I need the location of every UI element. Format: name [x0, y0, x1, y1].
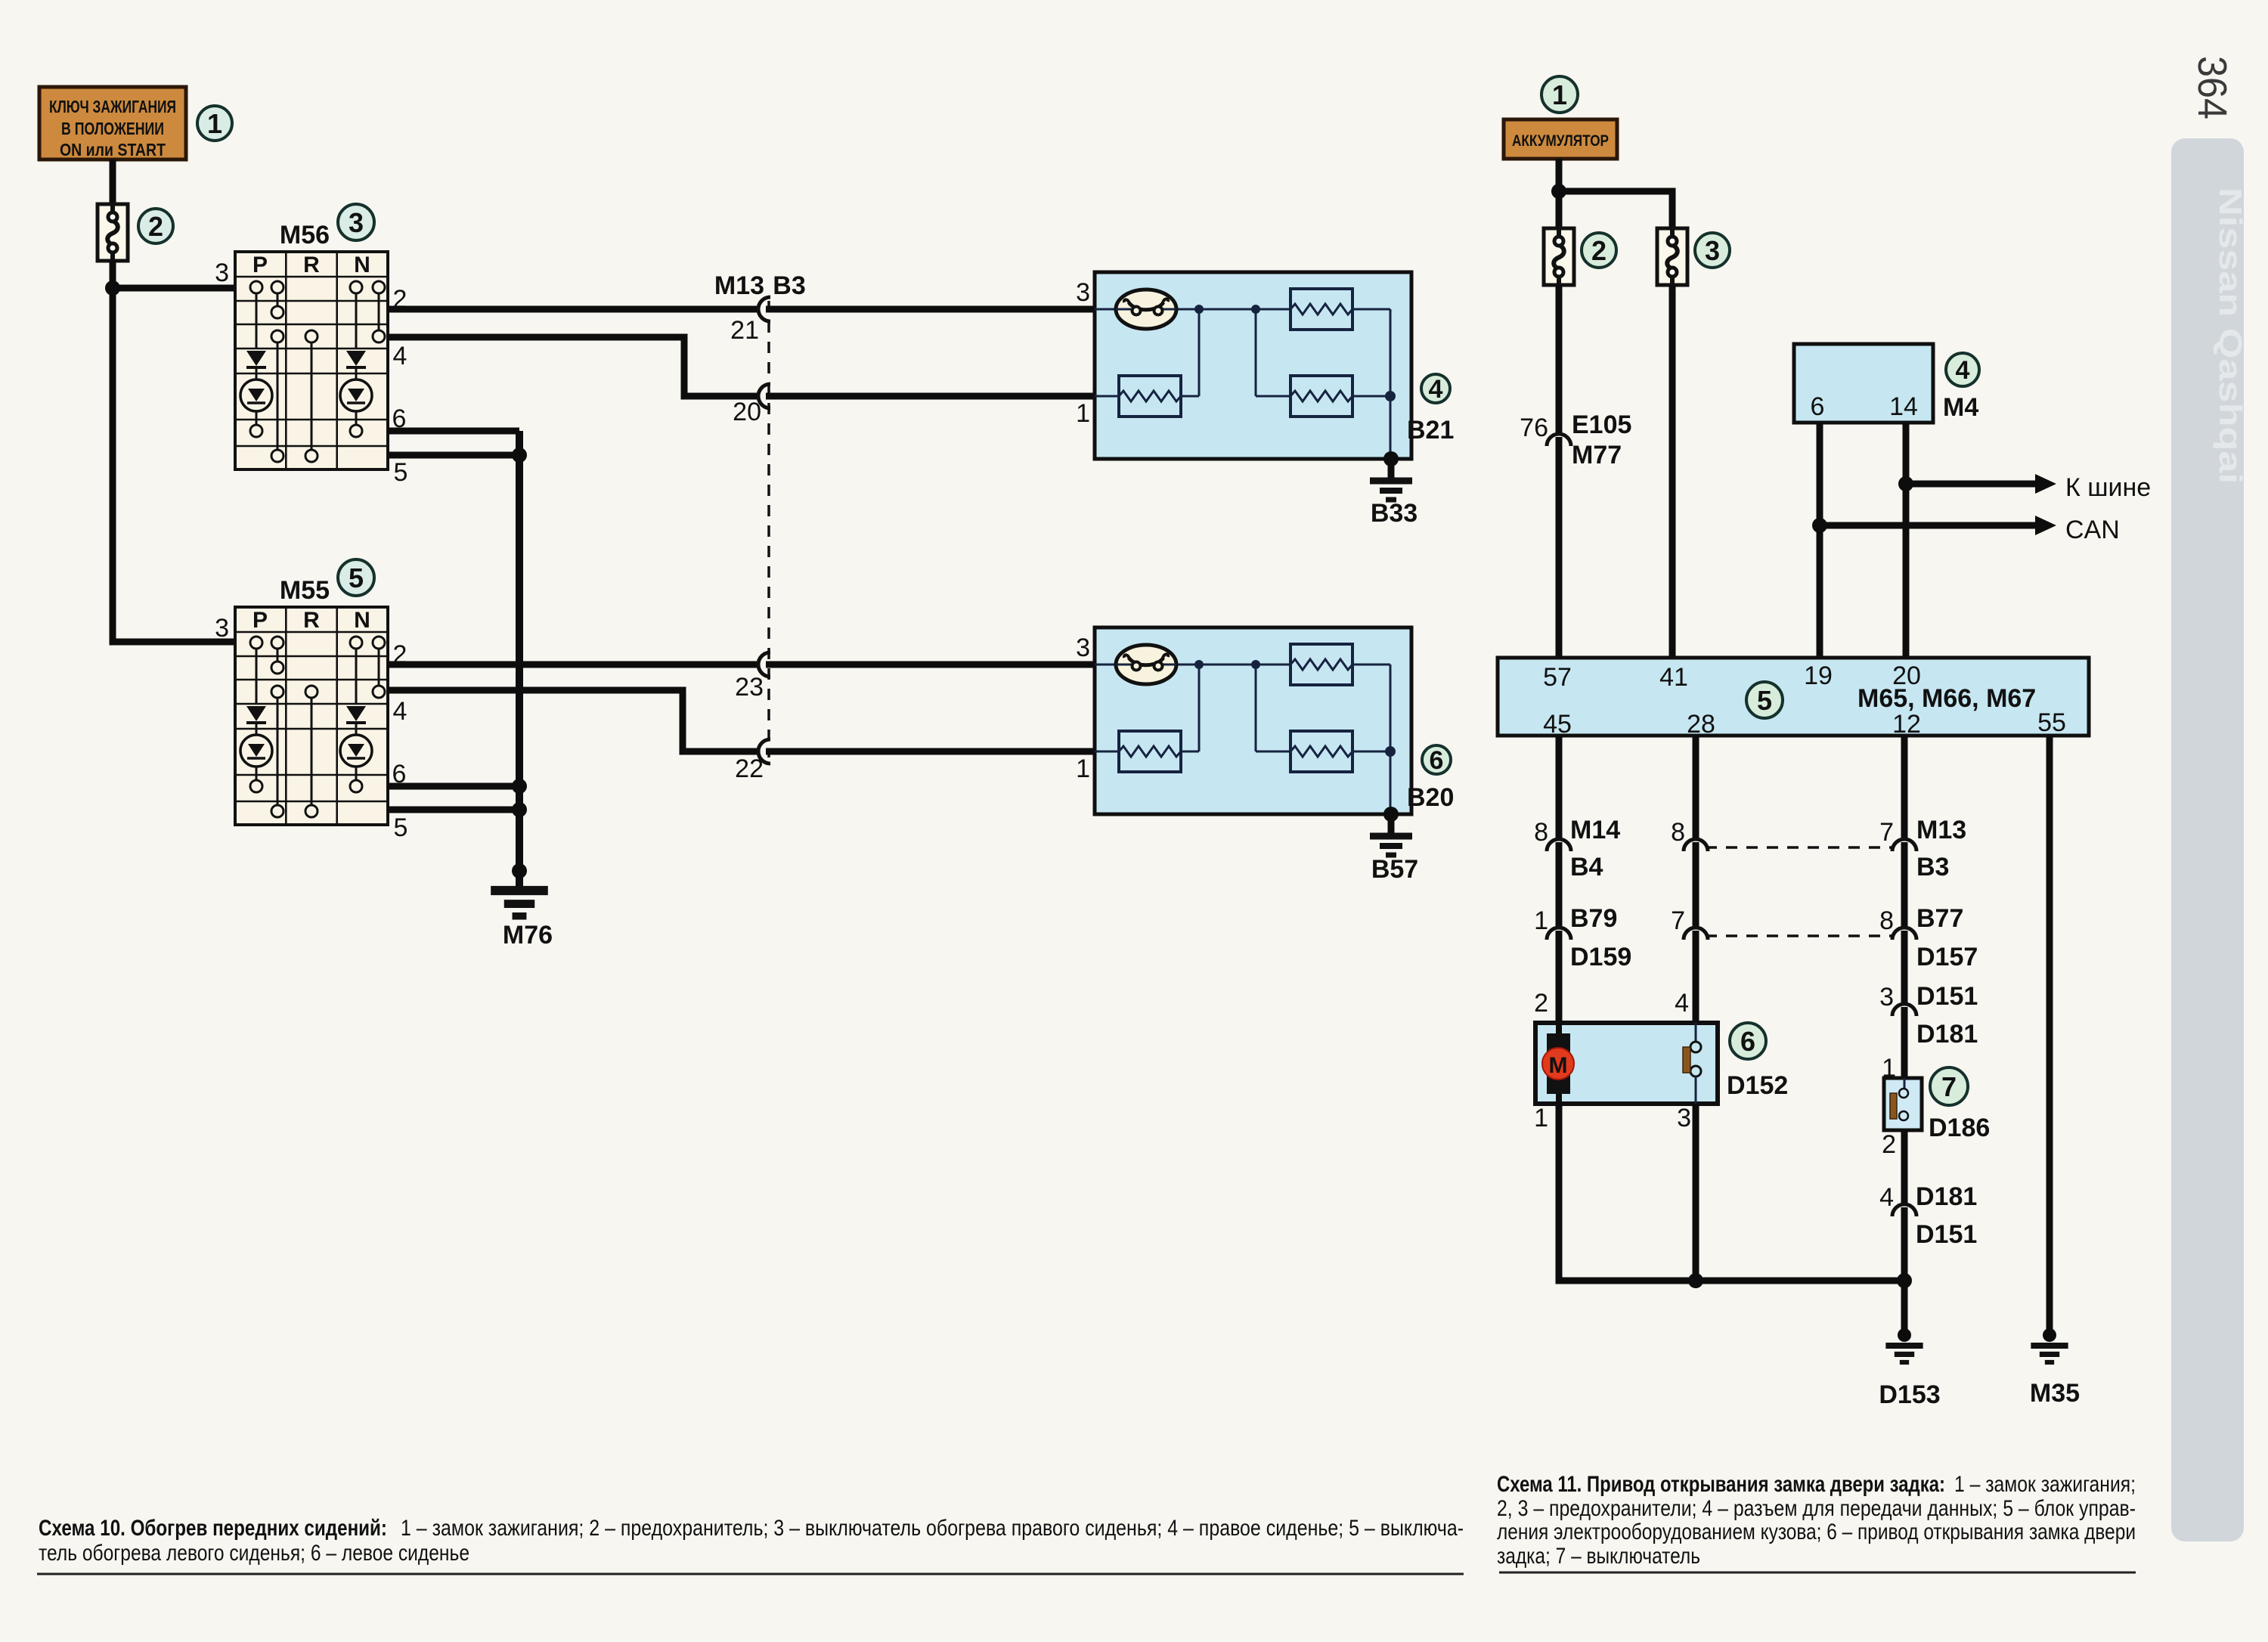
connector M13/B3 arc (right): [1892, 839, 1916, 851]
wire D159 to actuator pin 2: [1556, 931, 1563, 1023]
svg-text:B21: B21: [1407, 416, 1454, 445]
junction M56 pin5: [512, 448, 527, 463]
svg-text:АККУМУЛЯТОР: АККУМУЛЯТОР: [1512, 132, 1609, 150]
tailgate switch box (7) D186: [1884, 1078, 1922, 1130]
svg-text:M14: M14: [1570, 816, 1620, 844]
wire B20 to ground B57: [1388, 814, 1395, 835]
svg-text:В ПОЛОЖЕНИИ: В ПОЛОЖЕНИИ: [61, 119, 164, 138]
actuator switch bar: [1683, 1047, 1690, 1073]
wire M55 pin6 to ground bus: [388, 783, 519, 790]
connector B77/D157 arc: [1892, 928, 1916, 940]
svg-text:М55: М55: [280, 576, 330, 605]
svg-text:5: 5: [349, 562, 364, 593]
switch D186 bar: [1890, 1093, 1897, 1119]
svg-text:B77: B77: [1916, 904, 1963, 933]
svg-text:3: 3: [349, 207, 364, 238]
ground B33: [1370, 481, 1412, 500]
wire M55 pin5 to ground bus: [388, 807, 519, 813]
wire BCM pin 55 to ground M35: [2046, 736, 2053, 1335]
junction above ground M35: [2043, 1328, 2056, 1342]
svg-text:M13: M13: [1916, 816, 1966, 844]
battery box АККУМУЛЯТОР: [1504, 119, 1617, 159]
svg-text:К шине: К шине: [2065, 473, 2151, 502]
connector arc col2 pin 8: [1684, 839, 1708, 851]
callout circle 7 (right): [1930, 1067, 1968, 1105]
svg-text:М: М: [1549, 1053, 1568, 1078]
svg-text:6: 6: [1740, 1026, 1755, 1057]
wire M55 pin2 to connector 23: [388, 661, 758, 668]
svg-text:2: 2: [1534, 989, 1548, 1018]
wire BCM pin 45 to connector M14/B4: [1556, 736, 1563, 839]
svg-text:B3: B3: [773, 271, 805, 300]
connector B79/D159 arc: [1547, 928, 1571, 940]
wire M56 pin2 to connector 21: [388, 306, 758, 313]
wire battery to branch node: [1556, 159, 1563, 191]
svg-text:1: 1: [1534, 1104, 1548, 1132]
svg-text:7: 7: [1671, 906, 1685, 935]
svg-text:1: 1: [1534, 906, 1548, 935]
wire fuse 2 to connector E105/M77: [1556, 285, 1563, 435]
svg-text:2, 3 – предохранители; 4 – раз: 2, 3 – предохранители; 4 – разъем для пе…: [1497, 1496, 2136, 1521]
svg-text:20: 20: [733, 398, 761, 426]
connector M13/B3 dashed split line: [767, 301, 770, 757]
svg-text:4: 4: [1879, 1183, 1894, 1212]
svg-text:5: 5: [394, 813, 408, 842]
svg-text:19: 19: [1804, 661, 1833, 690]
wire ignition box to fuse: [110, 160, 116, 206]
node A junction: [105, 280, 120, 296]
wire BCM pin 12 to connector M13/B3: [1901, 736, 1908, 839]
svg-text:1: 1: [1552, 79, 1567, 110]
data link connector M4 box: [1794, 344, 1933, 423]
svg-text:D152: D152: [1727, 1071, 1788, 1100]
connector pin 23 arc: [758, 652, 770, 677]
callout circle 3 (left): [338, 204, 374, 240]
svg-text:M65, M66, M67: M65, M66, M67: [1857, 684, 2036, 713]
switch M55 (heater switch left seat): [235, 607, 388, 825]
wire fuse to node A: [110, 261, 116, 288]
callout circle 1 (right): [1541, 76, 1578, 113]
caption schema 11 rule: [1499, 1572, 2136, 1574]
fuse (3) right schematic: [1657, 228, 1687, 285]
fuse F (2) left schematic: [98, 204, 128, 261]
callout circle 6 (right): [1730, 1023, 1766, 1059]
svg-text:3: 3: [1076, 278, 1090, 307]
svg-text:2: 2: [148, 211, 163, 242]
svg-text:8: 8: [1534, 818, 1548, 847]
svg-text:6: 6: [1811, 392, 1825, 421]
svg-text:D186: D186: [1929, 1114, 1990, 1142]
switch M56 (heater switch right seat): [235, 252, 388, 469]
svg-text:23: 23: [735, 673, 764, 702]
svg-text:M77: M77: [1572, 441, 1622, 469]
wire M56 pin4 to connector 20: [388, 337, 758, 396]
callout circle 1 (left): [197, 106, 232, 141]
ground M35: [2031, 1346, 2068, 1362]
svg-text:B20: B20: [1407, 783, 1454, 812]
wire D181 to switch pin 1: [1901, 1007, 1908, 1078]
wire D151 to ground junction: [1901, 1207, 1908, 1335]
battery branch junction: [1551, 184, 1566, 199]
svg-text:7: 7: [1941, 1071, 1957, 1102]
svg-text:D157: D157: [1916, 943, 1978, 971]
wire connector 21 to B21 pin 3: [766, 306, 1095, 313]
svg-text:Nissan Qashqai: Nissan Qashqai: [2213, 187, 2248, 484]
svg-text:7: 7: [1879, 818, 1894, 847]
svg-text:M35: M35: [2030, 1379, 2080, 1408]
connector pin 21 arc: [758, 297, 770, 321]
connector arc col2 pin 7: [1684, 928, 1708, 940]
svg-text:1 – замок зажигания;: 1 – замок зажигания;: [1954, 1472, 2136, 1497]
svg-text:1 – замок зажигания; 2 – предо: 1 – замок зажигания; 2 – предохранитель;…: [401, 1516, 1464, 1541]
connector D151/D181 arc: [1892, 1004, 1916, 1016]
wire node A down to M55 pin 3: [113, 288, 235, 642]
junction B20 ground exit: [1383, 807, 1399, 822]
svg-text:1: 1: [207, 108, 222, 139]
svg-text:Схема 11. Привод открывания за: Схема 11. Привод открывания замка двери …: [1497, 1472, 1945, 1497]
actuator switch stub top: [1695, 1023, 1697, 1043]
wire BCM pin 28 to connector 8: [1693, 736, 1699, 839]
wire M55 pin4 to connector 22: [388, 690, 758, 751]
svg-text:задка; 7 – выключатель: задка; 7 – выключатель: [1497, 1544, 1700, 1569]
switch D186 contacts: [1899, 1089, 1908, 1098]
junction M55 pin6: [512, 779, 527, 794]
svg-text:D181: D181: [1916, 1020, 1978, 1049]
svg-text:2: 2: [1882, 1130, 1896, 1159]
svg-text:4: 4: [393, 697, 407, 726]
callout circle 5 (right): [1746, 682, 1783, 718]
ground B57: [1370, 836, 1412, 855]
wire B4 to connector B79/D159: [1556, 842, 1563, 928]
wire fuse 3 to BCM pin 41: [1669, 285, 1676, 658]
svg-text:Схема 10. Обогрев передних сид: Схема 10. Обогрев передних сидений:: [39, 1516, 387, 1541]
svg-text:3: 3: [1076, 634, 1090, 662]
svg-text:3: 3: [1879, 983, 1894, 1012]
callout circle 4 (right): [1946, 353, 1979, 386]
wire actuator pin 3 to ground bus: [1693, 1104, 1699, 1281]
svg-text:тель обогрева левого сиденья;: тель обогрева левого сиденья; 6 – левое …: [39, 1541, 469, 1566]
wire B3 to connector B77/D157: [1901, 842, 1908, 928]
wire node A to M56 pin 3: [113, 285, 235, 292]
callout circle 6 (left): [1422, 745, 1451, 775]
svg-text:4: 4: [1429, 375, 1443, 404]
svg-text:М56: М56: [280, 221, 330, 249]
svg-text:8: 8: [1671, 818, 1685, 847]
svg-text:364: 364: [2189, 56, 2235, 119]
callout circle 3 (right): [1695, 233, 1730, 268]
svg-text:M13: M13: [714, 271, 764, 300]
motor M brushes: [1547, 1033, 1570, 1094]
wire branch to fuse 2: [1556, 191, 1563, 229]
motor M: [1542, 1048, 1574, 1080]
svg-text:D151: D151: [1916, 1220, 1977, 1249]
junction B21 ground exit: [1383, 451, 1399, 466]
svg-text:4: 4: [393, 342, 407, 370]
svg-text:D151: D151: [1916, 982, 1978, 1011]
svg-text:14: 14: [1889, 392, 1918, 421]
right seat heater B21: [1095, 272, 1411, 459]
svg-text:8: 8: [1879, 906, 1894, 935]
svg-text:ON или START: ON или START: [60, 140, 166, 160]
callout circle 2 (left): [138, 209, 173, 243]
ignition key box (1) КЛЮЧ ЗАЖИГАНИЯ: [39, 87, 186, 160]
svg-text:D153: D153: [1879, 1380, 1940, 1409]
svg-text:КЛЮЧ ЗАЖИГАНИЯ: КЛЮЧ ЗАЖИГАНИЯ: [49, 97, 176, 116]
svg-text:41: 41: [1659, 663, 1688, 692]
svg-text:1: 1: [1076, 754, 1090, 783]
fuse (2) right schematic: [1544, 228, 1574, 285]
svg-text:3: 3: [215, 614, 229, 643]
CAN bus arrow upper: [1906, 481, 2035, 488]
svg-text:55: 55: [2037, 708, 2066, 737]
junction above ground M76: [512, 863, 527, 878]
wire M56 pin6 to ground bus: [388, 428, 519, 435]
junction CAN upper: [1898, 476, 1913, 491]
svg-text:22: 22: [735, 754, 764, 783]
ground M76: [491, 891, 548, 916]
svg-text:2: 2: [1591, 235, 1606, 266]
wire B21 to ground B33: [1388, 459, 1395, 479]
svg-text:76: 76: [1520, 414, 1548, 442]
left seat heater B20: [1095, 627, 1411, 814]
callout circle 5 (left): [338, 559, 374, 596]
callout circle 2 (right): [1582, 233, 1616, 268]
actuator switch contacts: [1690, 1042, 1701, 1052]
svg-text:57: 57: [1543, 663, 1572, 692]
callout circle 4 (left): [1421, 374, 1450, 404]
svg-text:5: 5: [394, 458, 408, 487]
connector M14/B4 arc: [1547, 839, 1571, 851]
svg-text:D159: D159: [1570, 943, 1631, 971]
page sidebar band: [2171, 138, 2244, 1541]
dashed connector link upper: [1706, 846, 1893, 849]
svg-text:М76: М76: [503, 921, 553, 950]
connector pin 20 arc: [758, 384, 770, 408]
svg-text:6: 6: [1430, 746, 1444, 775]
svg-text:3: 3: [1705, 235, 1720, 266]
wire connector 22 to B20 pin 1: [766, 748, 1095, 755]
wire M4 pin 6 to BCM pin 19: [1817, 423, 1823, 658]
tailgate lock actuator box (6) D152: [1535, 1023, 1718, 1104]
caption schema 10 rule: [37, 1573, 1464, 1575]
connector pin 22 arc: [758, 739, 770, 764]
switch D186 stub: [1904, 1078, 1906, 1089]
svg-text:D181: D181: [1916, 1182, 1977, 1211]
wire switch pin 2 to connector D181/D151: [1901, 1130, 1908, 1204]
dashed connector link lower: [1706, 934, 1893, 937]
actuator internal wire pin2: [1556, 1023, 1562, 1104]
wire branch to fuse 3: [1559, 191, 1672, 229]
wire connector 23 to B20 pin 3: [766, 661, 1095, 668]
junction ground bus D153: [1897, 1273, 1912, 1288]
CAN bus arrow lower: [1820, 522, 2035, 529]
junction M55 pin5: [512, 802, 527, 817]
svg-text:21: 21: [730, 316, 759, 345]
svg-text:3: 3: [215, 259, 229, 287]
svg-text:B57: B57: [1371, 855, 1418, 884]
svg-text:12: 12: [1892, 710, 1921, 739]
junction CAN lower: [1812, 518, 1827, 533]
wire M56 pin5 to ground bus: [388, 452, 519, 459]
actuator switch stub bottom: [1695, 1076, 1697, 1104]
svg-text:B4: B4: [1570, 853, 1603, 881]
svg-text:5: 5: [1757, 685, 1772, 716]
svg-text:B33: B33: [1371, 499, 1417, 528]
svg-text:ления электрооборудованием куз: ления электрооборудованием кузова; 6 – п…: [1497, 1520, 2136, 1544]
ground D153: [1885, 1346, 1923, 1362]
body control module BCM box (5) M65,M66,M67: [1498, 658, 2089, 736]
ground bus wire to M76: [516, 431, 523, 889]
svg-text:4: 4: [1675, 989, 1689, 1018]
svg-text:M4: M4: [1943, 393, 1978, 422]
svg-text:B79: B79: [1570, 904, 1617, 933]
wire connector 20 to B21 pin 1: [766, 393, 1095, 400]
svg-text:45: 45: [1543, 710, 1572, 739]
svg-text:1: 1: [1076, 399, 1090, 428]
wire M4 pin 14 to BCM pin 20: [1903, 423, 1910, 658]
junction pin 3 ground bus: [1688, 1273, 1703, 1288]
connector D181/D151 arc (lower): [1892, 1204, 1916, 1216]
svg-text:E105: E105: [1572, 410, 1631, 439]
wire connector M77 to BCM pin 57: [1556, 437, 1563, 658]
wire col2 to actuator pin 4: [1693, 931, 1699, 1023]
junction above ground D153: [1898, 1328, 1911, 1342]
connector E105/M77 arc: [1547, 434, 1571, 446]
wire col2 between connectors: [1693, 842, 1699, 928]
svg-text:CAN: CAN: [2065, 516, 2120, 544]
svg-text:B3: B3: [1916, 853, 1949, 881]
wire D157 to connector D151/D181: [1901, 931, 1908, 1004]
svg-text:28: 28: [1687, 710, 1715, 739]
wire actuator pin 1 to ground bus: [1559, 1104, 1904, 1281]
svg-text:4: 4: [1956, 356, 1970, 385]
svg-text:3: 3: [1677, 1104, 1691, 1132]
